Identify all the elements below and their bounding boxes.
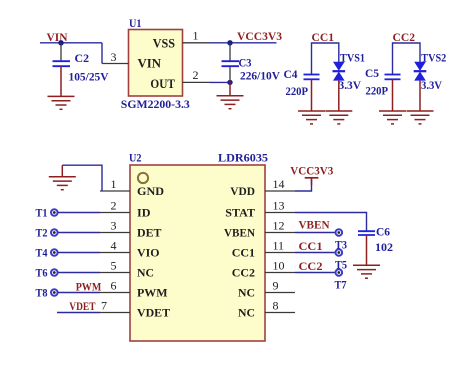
junction VIN/C2	[58, 40, 63, 45]
svg-text:STAT: STAT	[225, 206, 255, 220]
svg-text:SGM2200-3.3: SGM2200-3.3	[121, 97, 190, 111]
svg-text:DET: DET	[137, 226, 162, 240]
svg-text:VCC3V3: VCC3V3	[290, 164, 333, 178]
TVS diode TVS2	[414, 51, 447, 93]
pin 5 stub	[100, 272, 130, 274]
ground stem under TVS2	[419, 81, 421, 111]
wire VIN	[40, 42, 102, 44]
svg-text:13: 13	[273, 199, 285, 213]
pin 3 stub	[100, 232, 130, 234]
wire VIN corner down to pin 3	[101, 43, 103, 64]
connector T4	[36, 246, 101, 260]
pin 2 stub	[100, 212, 130, 214]
capacitor C4	[284, 67, 320, 98]
svg-text:C2: C2	[75, 51, 90, 65]
connector T8	[36, 286, 101, 300]
svg-text:VIN: VIN	[138, 57, 162, 71]
svg-text:NC: NC	[137, 266, 154, 280]
svg-text:C4: C4	[284, 67, 298, 81]
capacitor C5	[365, 66, 401, 98]
svg-text:C5: C5	[365, 66, 379, 80]
svg-text:10: 10	[273, 259, 285, 273]
svg-text:GND: GND	[137, 184, 164, 198]
svg-text:8: 8	[273, 299, 279, 313]
svg-text:1: 1	[193, 28, 199, 42]
svg-text:5: 5	[111, 259, 117, 273]
svg-text:NC: NC	[238, 286, 255, 300]
svg-text:226/10V: 226/10V	[240, 69, 280, 83]
ground stem at U2 pin1	[61, 165, 63, 177]
svg-text:PWM: PWM	[137, 286, 168, 300]
svg-text:3: 3	[111, 50, 117, 64]
ground stem under C6	[366, 235, 368, 265]
svg-text:220P: 220P	[286, 84, 309, 98]
svg-text:CC1: CC1	[299, 239, 323, 253]
svg-text:VSS: VSS	[153, 37, 175, 51]
connector T2	[36, 226, 101, 240]
svg-text:CC1: CC1	[232, 246, 255, 260]
svg-text:6: 6	[111, 279, 117, 293]
svg-text:U1: U1	[129, 16, 142, 30]
pin 2 of U1	[183, 81, 211, 83]
ground under C2	[48, 96, 75, 109]
pin 6 stub	[100, 292, 130, 294]
svg-text:OUT: OUT	[150, 77, 175, 91]
svg-text:T6: T6	[36, 266, 48, 280]
svg-text:T7: T7	[335, 278, 347, 292]
capacitor C2	[53, 43, 109, 84]
svg-text:CC1: CC1	[312, 30, 335, 44]
ground under C5	[379, 111, 406, 124]
wire CC1 to T5	[295, 252, 336, 254]
pin 13 stub	[265, 212, 295, 214]
svg-text:3.3V: 3.3V	[339, 78, 362, 92]
svg-text:9: 9	[273, 279, 279, 293]
svg-text:2: 2	[111, 199, 117, 213]
wire CC2 to T7	[295, 272, 336, 274]
ground under TVS2	[407, 111, 434, 124]
capacitor C3	[222, 43, 281, 83]
svg-text:1: 1	[111, 177, 117, 191]
connector T6	[36, 266, 101, 280]
ground under C4	[298, 111, 325, 124]
svg-text:NC: NC	[238, 306, 255, 320]
ground under C6	[353, 265, 380, 278]
connector T5	[335, 249, 347, 271]
svg-text:ID: ID	[137, 206, 151, 220]
ground under TVS1	[325, 111, 352, 124]
pin 9 stub	[265, 292, 295, 294]
connector T7	[335, 269, 347, 291]
svg-text:C3: C3	[239, 56, 252, 70]
connector T1	[36, 206, 101, 220]
svg-text:105/25V: 105/25V	[69, 70, 109, 84]
IC U2	[129, 151, 268, 342]
ground stem under C4	[311, 79, 313, 111]
pin 1 stub	[100, 190, 130, 192]
svg-text:VBEN: VBEN	[224, 226, 255, 240]
svg-text:12: 12	[273, 219, 285, 233]
wire CC1 loop	[312, 43, 339, 74]
svg-text:TVS2: TVS2	[421, 51, 446, 65]
TVS diode TVS1	[333, 51, 366, 93]
ground stem under C3	[229, 82, 231, 95]
wire ground to pin 1	[62, 165, 102, 191]
svg-text:3: 3	[111, 219, 117, 233]
IC U1 regulator	[121, 16, 190, 111]
svg-text:14: 14	[273, 177, 285, 191]
svg-text:VDET: VDET	[69, 299, 95, 313]
capacitor C6	[358, 224, 393, 254]
wire pin2 to C3	[210, 81, 230, 83]
svg-text:T2: T2	[36, 226, 48, 240]
junction pin2/C3	[227, 80, 232, 85]
pin 4 stub	[100, 252, 130, 254]
svg-text:PWM: PWM	[76, 279, 102, 293]
ground stem under TVS1	[338, 81, 340, 111]
svg-text:7: 7	[101, 299, 107, 313]
svg-text:LDR6035: LDR6035	[218, 151, 268, 165]
pin 12 stub	[265, 232, 295, 234]
svg-text:T8: T8	[36, 286, 48, 300]
svg-text:VBEN: VBEN	[299, 218, 330, 232]
ground stem under C2	[60, 66, 62, 96]
svg-text:2: 2	[193, 68, 199, 82]
svg-text:VIO: VIO	[137, 246, 160, 260]
svg-text:102: 102	[375, 240, 393, 254]
pin 7 stub	[100, 312, 130, 314]
svg-text:TVS1: TVS1	[340, 51, 365, 65]
svg-text:T1: T1	[36, 206, 48, 220]
pin 3 of U1	[102, 63, 129, 65]
svg-text:4: 4	[111, 239, 117, 253]
pin 11 stub	[265, 252, 295, 254]
svg-text:220P: 220P	[366, 84, 389, 98]
svg-text:VDET: VDET	[137, 306, 170, 320]
svg-text:CC2: CC2	[232, 266, 255, 280]
svg-text:VIN: VIN	[47, 30, 68, 44]
svg-text:CC2: CC2	[393, 30, 416, 44]
ground under C3	[217, 96, 244, 109]
svg-text:U2: U2	[129, 151, 142, 165]
svg-text:VDD: VDD	[230, 184, 255, 198]
pin 10 stub	[265, 272, 295, 274]
svg-text:T4: T4	[36, 246, 48, 260]
svg-text:CC2: CC2	[299, 259, 323, 273]
wire pin1 to VCC3V3	[210, 42, 277, 44]
connector T3	[335, 229, 347, 251]
ground at U2 pin1	[49, 177, 76, 190]
ground stem under C5	[392, 79, 394, 111]
svg-text:C6: C6	[376, 224, 390, 238]
power port VCC3V3 at pin 14	[290, 164, 333, 192]
wire STAT to C6	[295, 213, 367, 232]
junction VCC3V3/C3	[227, 40, 232, 45]
svg-text:3.3V: 3.3V	[421, 78, 442, 92]
wire CC2 loop	[393, 43, 421, 74]
pin 8 stub	[265, 312, 295, 314]
pin 14 stub	[265, 190, 295, 192]
svg-text:11: 11	[273, 239, 285, 253]
wire VBEN to T3	[295, 232, 336, 234]
wire VDET to pin 7	[57, 312, 100, 314]
svg-text:VCC3V3: VCC3V3	[237, 29, 282, 43]
pin 1 of U1	[183, 42, 211, 44]
